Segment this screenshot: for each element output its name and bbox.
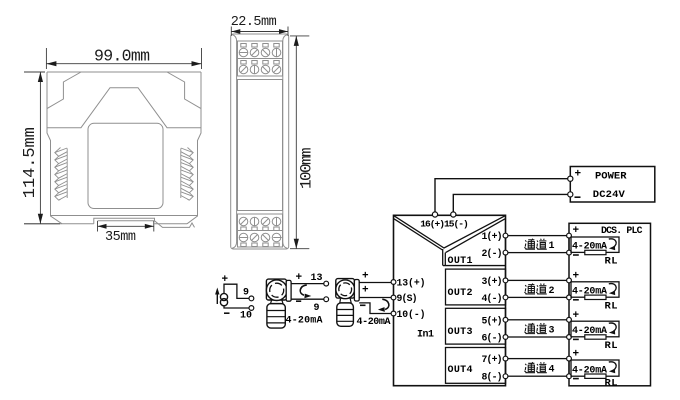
meter 4-20mA ch4 [571, 360, 619, 376]
left terminal labels [397, 278, 426, 321]
meter loop arrow ch2 [609, 284, 616, 293]
svg-text:+: + [573, 271, 580, 283]
head square [336, 279, 355, 299]
meter loop arrow ch3 [609, 323, 616, 332]
svg-text:RL: RL [605, 377, 618, 389]
top-right groove [167, 72, 201, 109]
device outline left side [47, 72, 62, 224]
svg-text:OUT3: OUT3 [448, 327, 473, 338]
bottom terminal block [238, 214, 283, 247]
minus ch2 [573, 299, 579, 301]
svg-text:+: + [362, 271, 369, 283]
source terminal 10 [249, 306, 254, 311]
svg-text:100mm: 100mm [298, 147, 316, 189]
svg-text:DC24V: DC24V [593, 189, 626, 201]
current source symbol [220, 293, 227, 305]
meter loop arrow ch1 [609, 239, 616, 248]
dimension 99.0mm [46, 48, 201, 69]
device top edge [47, 71, 201, 73]
power terminals [432, 176, 573, 217]
channel3 label [524, 323, 546, 334]
svg-text:13: 13 [311, 273, 323, 284]
meter loop arrow ch4 [609, 362, 616, 371]
tx2 wires [359, 283, 393, 314]
current direction arrow [216, 291, 218, 304]
tx1 wires [291, 284, 324, 300]
channel2 [506, 280, 570, 297]
inner right wall [283, 35, 288, 249]
source wires [224, 284, 249, 308]
svg-text:4-20mA: 4-20mA [286, 316, 323, 327]
dimension 22.5mm [231, 27, 288, 37]
din rail tab [94, 218, 155, 224]
svg-text:+: + [573, 225, 580, 237]
channel3 [506, 320, 570, 337]
svg-text:10: 10 [240, 311, 252, 322]
neck [340, 299, 351, 303]
OUT3 box [446, 308, 506, 344]
neck [271, 300, 284, 303]
inner rounded rectangle [88, 123, 163, 208]
minus ch1 [573, 254, 579, 256]
channel4 [506, 359, 570, 377]
device bottom edge [51, 215, 198, 217]
svg-text:6(-): 6(-) [482, 333, 503, 344]
svg-text:9: 9 [314, 303, 320, 314]
svg-text:OUT4: OUT4 [448, 365, 473, 376]
inner left wall [232, 35, 237, 249]
hatched rib right [181, 148, 193, 201]
right terminal labels [482, 231, 503, 383]
svg-text:In1: In1 [417, 330, 434, 341]
rail baseline [24, 223, 187, 225]
svg-text:RL: RL [605, 340, 618, 352]
rail line right with break [155, 221, 195, 228]
dimension 35mm [98, 221, 154, 232]
screws top block [239, 44, 281, 74]
svg-text:3(+): 3(+) [482, 276, 503, 287]
OUT2 box [446, 269, 506, 305]
transmitter 2 [336, 279, 359, 327]
svg-text:16(+)15(-): 16(+)15(-) [420, 219, 469, 230]
svg-text:4: 4 [549, 365, 555, 376]
svg-text:OUT2: OUT2 [448, 288, 473, 299]
svg-text:5(+): 5(+) [482, 315, 503, 326]
device outline right side [187, 72, 201, 224]
svg-text:4(-): 4(-) [482, 293, 503, 304]
middle panel [238, 80, 283, 211]
svg-text:DCS. PLC: DCS. PLC [601, 225, 643, 236]
svg-text:+: + [575, 169, 582, 181]
power box [570, 167, 655, 203]
load resistor RL ch1 [585, 250, 606, 254]
body [337, 303, 354, 326]
tx1 terminal circles [324, 281, 329, 286]
DCS channel group 1 : meter 4-20mA [571, 237, 619, 252]
head circle [336, 280, 355, 299]
head square [266, 279, 286, 300]
top terminal block [238, 41, 283, 76]
tx1 loop arrow [300, 285, 307, 295]
meter 4-20mA ch3 [571, 321, 619, 337]
head inner ring [339, 283, 352, 296]
svg-text:+: + [362, 284, 369, 296]
DCS PLC box [569, 223, 651, 385]
terminal strip [286, 280, 291, 301]
head circle [266, 280, 287, 301]
svg-text:2(-): 2(-) [482, 248, 503, 259]
power wires [435, 179, 570, 214]
dimension 100mm [290, 36, 309, 249]
meter 4-20mA ch2 [571, 282, 619, 297]
svg-text:RL: RL [605, 256, 618, 268]
head inner ring [270, 283, 284, 297]
channel4 label [524, 362, 546, 373]
svg-text:114.5mm: 114.5mm [21, 127, 40, 198]
svg-text:1: 1 [549, 241, 555, 252]
svg-text:+: + [296, 272, 303, 284]
svg-text:+: + [573, 310, 580, 322]
power - label [575, 196, 581, 198]
load resistor RL ch2 [585, 295, 606, 299]
load resistor RL ch4 [585, 374, 606, 378]
svg-text:7(+): 7(+) [482, 354, 503, 365]
OUT4 box [446, 348, 506, 384]
source terminal 9 [249, 296, 254, 301]
inner trapezoid [47, 88, 201, 128]
svg-text:OUT1: OUT1 [448, 256, 473, 267]
hatched rib left [55, 148, 67, 201]
svg-text:22.5mm: 22.5mm [231, 15, 277, 30]
V isolation walls (double lines) [394, 216, 505, 266]
block left terminal circles [391, 280, 396, 316]
svg-text:8(-): 8(-) [482, 372, 503, 383]
svg-text:35mm: 35mm [105, 230, 136, 245]
dimension 114.5mm [24, 72, 60, 224]
svg-text:POWER: POWER [595, 171, 627, 183]
svg-text:9: 9 [243, 288, 249, 299]
transmitter 1 [266, 279, 291, 328]
main isolator block [394, 215, 506, 385]
svg-text:99.0mm: 99.0mm [94, 47, 150, 66]
minus ch4 [573, 378, 579, 380]
minus ch3 [573, 338, 579, 340]
screws bottom block [239, 217, 282, 246]
source minus label [224, 312, 230, 314]
channel corner terminals [503, 233, 571, 378]
top-left groove [47, 72, 81, 109]
svg-text:3: 3 [549, 325, 555, 336]
svg-text:RL: RL [605, 300, 618, 312]
channel1 label [524, 239, 546, 250]
svg-text:9(S): 9(S) [397, 293, 418, 304]
load resistor RL ch3 [585, 335, 606, 339]
svg-text:13(+): 13(+) [397, 278, 426, 289]
svg-text:1(+): 1(+) [482, 231, 503, 242]
front outline [231, 34, 289, 249]
svg-text:+: + [573, 349, 580, 361]
svg-text:2: 2 [549, 286, 555, 297]
terminal strip [354, 280, 359, 302]
svg-text:4-20mA: 4-20mA [357, 317, 391, 328]
svg-text:10(-): 10(-) [397, 309, 426, 320]
OUT1 box [443, 265, 506, 267]
body [267, 304, 285, 329]
tx2 loop arrow [382, 299, 389, 309]
channel1 wires+box [506, 236, 570, 253]
channel2 label [524, 284, 546, 295]
